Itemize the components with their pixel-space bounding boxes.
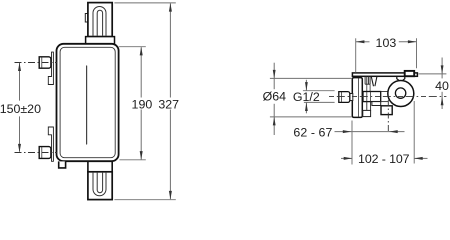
svg-text:327: 327	[158, 98, 179, 112]
svg-text:G1/2: G1/2	[293, 90, 320, 104]
svg-text:Ø64: Ø64	[263, 90, 287, 104]
svg-text:40: 40	[435, 79, 449, 93]
svg-text:190: 190	[132, 98, 153, 112]
svg-text:103: 103	[376, 36, 397, 50]
svg-text:150±20: 150±20	[0, 102, 41, 116]
svg-text:62 - 67: 62 - 67	[293, 126, 332, 140]
svg-text:102 - 107: 102 - 107	[358, 152, 410, 166]
